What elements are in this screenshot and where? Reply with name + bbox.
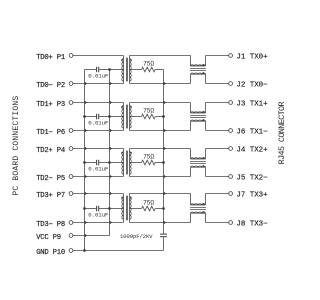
- terminal P3: [69, 101, 73, 105]
- svg-text:J1 TX0+: J1 TX0+: [236, 54, 268, 62]
- svg-text:TD3− P8: TD3− P8: [36, 221, 65, 229]
- terminal P6: [69, 129, 73, 133]
- wire TD2- P5 to T3 primary bottom: [73, 176, 124, 178]
- svg-text:TD0+ P1: TD0+ P1: [36, 54, 65, 62]
- termination rail lower segment: [163, 240, 165, 251]
- resistor R1 75ohm: [142, 61, 156, 72]
- svg-text:PC BOARD CONNECTIONS: PC BOARD CONNECTIONS: [12, 96, 21, 196]
- svg-text:75Ω: 75Ω: [143, 61, 154, 68]
- wire TD0+ P1 to T1 primary top: [73, 55, 124, 57]
- wire TD3+ P7 to T4 primary top: [73, 193, 124, 195]
- wire GND P10: [73, 250, 164, 252]
- terminal P4: [69, 147, 73, 151]
- transformer T1 phase dots: [121, 59, 131, 61]
- common-mode choke L3: [190, 149, 206, 177]
- transformer T2 secondary winding: [130, 103, 132, 131]
- wire T1 secondary bottom to choke: [130, 83, 191, 85]
- svg-text:TD2+ P4: TD2+ P4: [36, 147, 65, 155]
- wire R2 to termination rail: [155, 116, 163, 118]
- wire R4 to termination rail: [155, 208, 163, 210]
- wire choke L1 to J1: [206, 55, 229, 57]
- common-mode choke L4: [190, 194, 206, 223]
- wire TD1- P6 to T2 primary bottom: [73, 130, 124, 132]
- svg-text:J3 TX1+: J3 TX1+: [236, 101, 268, 109]
- capacitor C4 0.01uF: [85, 206, 110, 219]
- terminal P5: [69, 175, 73, 179]
- transformer T3 phase dots: [121, 152, 131, 154]
- wire choke L3 to J5: [206, 176, 229, 178]
- transformer T2 phase dots: [121, 106, 131, 108]
- svg-text:0.01uF: 0.01uF: [88, 212, 109, 219]
- wire choke L2 to J3: [206, 102, 229, 104]
- wire VCC P9: [73, 235, 110, 237]
- transformer T2 primary winding: [122, 103, 124, 131]
- terminal P9: [69, 234, 73, 238]
- wire TD0- P2 to T1 primary bottom: [73, 83, 124, 85]
- terminal J5: [229, 175, 233, 179]
- transformer T4 phase dots: [121, 197, 131, 199]
- terminal P10: [69, 249, 73, 253]
- wire T4 primary center tap: [110, 208, 124, 210]
- terminal J1: [229, 54, 233, 58]
- wire T1 primary center tap: [110, 69, 124, 71]
- termination rail: [163, 70, 165, 232]
- wire TD3- P8 to T4 primary bottom: [73, 222, 124, 224]
- terminal P2: [69, 82, 73, 86]
- wire choke L2 to J6: [206, 130, 229, 132]
- transformer T1 primary winding: [122, 56, 124, 84]
- wire T2 secondary center tap: [130, 116, 142, 118]
- resistor R3 75ohm: [142, 154, 156, 165]
- terminal J6: [229, 129, 233, 133]
- common-mode choke L2: [190, 103, 206, 131]
- resistor R2 75ohm: [142, 108, 156, 119]
- wire R1 to termination rail: [155, 69, 163, 71]
- capacitor C3 0.01uF: [85, 160, 110, 173]
- svg-text:RJ45 CONNECTOR: RJ45 CONNECTOR: [277, 101, 287, 164]
- svg-text:J5 TX2−: J5 TX2−: [236, 175, 268, 183]
- svg-text:J4 TX2+: J4 TX2+: [236, 147, 268, 155]
- terminal J3: [229, 101, 233, 105]
- transformer T4 primary winding: [122, 194, 124, 223]
- terminal J7: [229, 192, 233, 196]
- wire T3 primary center tap: [110, 162, 124, 164]
- terminal J4: [229, 147, 233, 151]
- terminal P1: [69, 54, 73, 58]
- resistor R4 75ohm: [142, 200, 156, 211]
- wire T4 secondary center tap: [130, 208, 142, 210]
- svg-text:TD1− P6: TD1− P6: [36, 129, 65, 137]
- svg-text:1000pF/2KV: 1000pF/2KV: [120, 233, 153, 240]
- wire T3 secondary bottom to choke: [130, 176, 191, 178]
- wire T4 secondary top to choke: [130, 193, 191, 195]
- wire T2 secondary top to choke: [130, 102, 191, 104]
- VCC rail (center-tap caps): [109, 70, 111, 236]
- svg-text:TD0− P2: TD0− P2: [36, 82, 65, 90]
- wire T1 secondary center tap: [130, 69, 142, 71]
- wire R3 to termination rail: [155, 162, 163, 164]
- svg-text:0.01uF: 0.01uF: [88, 73, 109, 80]
- common-mode choke L1: [190, 56, 206, 84]
- wire T4 secondary bottom to choke: [130, 222, 191, 224]
- wire T2 secondary bottom to choke: [130, 130, 191, 132]
- svg-text:VCC P9: VCC P9: [36, 234, 61, 242]
- capacitor C5 1000pF/2KV: [120, 231, 167, 240]
- wire T3 secondary top to choke: [130, 148, 191, 150]
- capacitor C2 0.01uF: [85, 114, 110, 127]
- transformer T1 core: [126, 58, 127, 82]
- svg-text:GND P10: GND P10: [36, 249, 65, 257]
- svg-text:J6 TX1−: J6 TX1−: [236, 129, 268, 137]
- wire choke L1 to J2: [206, 83, 229, 85]
- svg-text:TD1+ P3: TD1+ P3: [36, 101, 65, 109]
- svg-text:75Ω: 75Ω: [143, 154, 154, 161]
- svg-text:J7 TX3+: J7 TX3+: [236, 192, 268, 200]
- wire TD2+ P4 to T3 primary top: [73, 148, 124, 150]
- junction dots: [83, 68, 165, 252]
- wire T3 secondary center tap: [130, 162, 142, 164]
- svg-text:75Ω: 75Ω: [143, 108, 154, 115]
- svg-text:75Ω: 75Ω: [143, 200, 154, 207]
- svg-text:J8 TX3−: J8 TX3−: [236, 221, 268, 229]
- terminal P7: [69, 192, 73, 196]
- transformer T1 secondary winding: [130, 56, 132, 84]
- wire TD1+ P3 to T2 primary top: [73, 102, 124, 104]
- terminal J8: [229, 221, 233, 225]
- transformer T4 secondary winding: [130, 194, 132, 223]
- cap common rail (to GND): [84, 70, 86, 251]
- transformer T2 core: [126, 105, 127, 129]
- svg-text:TD2− P5: TD2− P5: [36, 175, 65, 183]
- svg-text:J2 TX0−: J2 TX0−: [236, 82, 268, 90]
- transformer T3 secondary winding: [130, 149, 132, 177]
- terminal P8: [69, 221, 73, 225]
- transformer T4 core: [126, 196, 127, 221]
- svg-text:0.01uF: 0.01uF: [88, 120, 109, 127]
- terminal J2: [229, 82, 233, 86]
- wire choke L4 to J8: [206, 222, 229, 224]
- transformer T3 core: [126, 151, 127, 175]
- wire T1 secondary top to choke: [130, 55, 191, 57]
- capacitor C1 0.01uF: [85, 67, 110, 80]
- wire choke L3 to J4: [206, 148, 229, 150]
- transformer T3 primary winding: [122, 149, 124, 177]
- wire choke L4 to J7: [206, 193, 229, 195]
- svg-text:0.01uF: 0.01uF: [88, 166, 109, 173]
- wire T2 primary center tap: [110, 116, 124, 118]
- svg-text:TD3+ P7: TD3+ P7: [36, 192, 65, 200]
- crossover marks: [85, 82, 167, 238]
